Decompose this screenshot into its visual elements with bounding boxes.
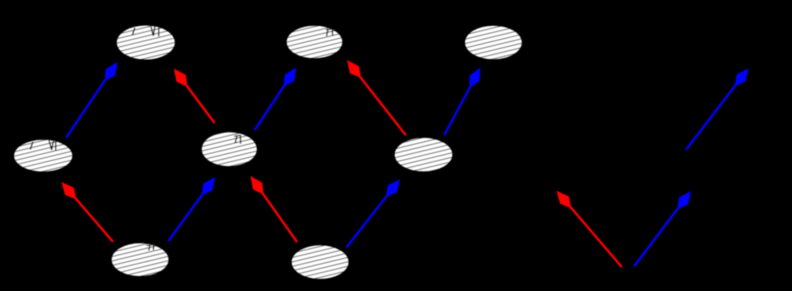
arrow A3 blue E5->E2	[255, 68, 297, 130]
label fragment on E4: V	[49, 140, 54, 150]
arrow B2 blue right-group upper	[686, 68, 749, 149]
label fragment on E4: slash	[30, 142, 33, 150]
label fragment on E1: slash	[132, 28, 134, 36]
arrow A6 red E7->E4	[61, 182, 113, 242]
node E7 bottom-left	[112, 243, 169, 276]
label fragment on E5: pi legs	[234, 135, 241, 136]
node E6 right-middle	[395, 138, 453, 172]
node E1 top-left	[117, 26, 175, 60]
arrow A7 blue E7->E5	[168, 177, 215, 241]
arrow A1 blue E4->E1	[66, 62, 117, 138]
label fragment on E7: pi legs	[146, 244, 154, 245]
label fragment on E1: I	[158, 28, 160, 37]
label fragment on E4: I	[55, 140, 57, 150]
node E8 bottom-middle	[292, 245, 349, 279]
node E5 middle	[202, 132, 257, 166]
arrow A2 red E5->E1	[174, 69, 215, 124]
arrow A8 red E8->E5	[251, 176, 298, 242]
node E3 top-right	[465, 26, 522, 60]
arrow A4 red E6->E2	[347, 60, 406, 135]
arrow A9 blue E8->E6	[346, 179, 400, 247]
label fragment on E1: V	[151, 26, 155, 36]
arrow B1 blue right-group lower	[634, 191, 691, 267]
arrow A5 blue E6->E3	[444, 68, 480, 136]
node E4 left-middle	[14, 140, 72, 172]
label fragment on E2: pi legs	[326, 29, 335, 30]
node E2 top-middle	[287, 26, 343, 59]
arrow R1 red right-group	[557, 191, 622, 267]
